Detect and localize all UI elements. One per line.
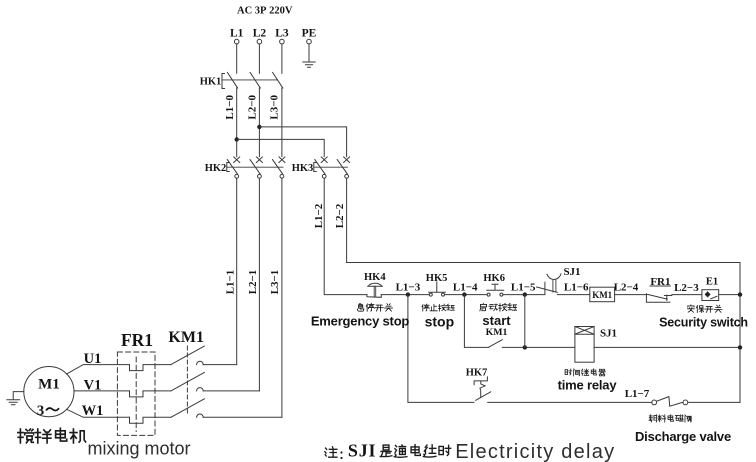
discharge valve contact bbox=[652, 400, 657, 405]
switch HK7 bbox=[474, 377, 487, 385]
wire bbox=[281, 44, 283, 73]
motor M1 bbox=[24, 367, 74, 417]
thermal relay FR1 heater bbox=[130, 365, 171, 371]
wire bbox=[688, 401, 740, 403]
wire L1-2 bbox=[324, 178, 367, 294]
svg-text:W1: W1 bbox=[82, 403, 104, 419]
svg-text:SJ1: SJ1 bbox=[563, 266, 580, 278]
hanzi 急停开关 emergency stop label bbox=[357, 303, 363, 311]
svg-text:KM1: KM1 bbox=[486, 327, 508, 338]
switch HK1 linkage bbox=[222, 79, 278, 81]
svg-text:L1−3: L1−3 bbox=[396, 282, 421, 294]
switch HK2 pole bbox=[256, 157, 262, 163]
svg-text:Emergency stop: Emergency stop bbox=[311, 313, 410, 328]
junction node bbox=[738, 292, 742, 296]
switch HK3 pole bbox=[344, 157, 350, 163]
svg-text:HK1: HK1 bbox=[200, 76, 222, 87]
contactor KM1 linkage bbox=[186, 346, 188, 413]
contactor KM1 main contact bbox=[171, 399, 205, 418]
svg-text:L3−1: L3−1 bbox=[269, 270, 281, 295]
wire bbox=[557, 294, 589, 296]
hanzi 停止按钮 stop button label bbox=[422, 304, 429, 311]
wire bbox=[615, 294, 647, 296]
svg-text:L3: L3 bbox=[275, 28, 289, 40]
hanzi 注 note label bbox=[325, 447, 338, 457]
wire V1 bbox=[74, 390, 130, 392]
wire L3-1 bbox=[281, 178, 283, 417]
svg-text:FR1: FR1 bbox=[650, 276, 670, 288]
wire bbox=[445, 294, 488, 296]
switch HK2 pole bbox=[279, 157, 285, 163]
wire bbox=[258, 44, 260, 73]
contactor KM1 main contact bbox=[171, 372, 205, 391]
svg-text:HK2: HK2 bbox=[205, 163, 227, 174]
wire bbox=[381, 294, 429, 296]
wire L2-1 bbox=[258, 178, 260, 391]
svg-text:L2−0: L2−0 bbox=[247, 94, 259, 119]
wire bbox=[258, 88, 260, 157]
switch HK1 blade bbox=[227, 72, 237, 88]
svg-text:3: 3 bbox=[37, 403, 45, 419]
wire top rail bbox=[347, 262, 740, 264]
time relay contact SJ1 bbox=[544, 282, 546, 294]
svg-text:L1−6: L1−6 bbox=[564, 281, 589, 293]
svg-text:SJI: SJI bbox=[348, 441, 376, 461]
wire W1 bbox=[67, 409, 130, 417]
svg-text:Discharge valve: Discharge valve bbox=[635, 429, 731, 444]
svg-text:L2−2: L2−2 bbox=[334, 203, 346, 228]
thermal relay FR1 heater bbox=[130, 417, 171, 423]
svg-text:L1−7: L1−7 bbox=[625, 388, 650, 400]
svg-text:HK5: HK5 bbox=[426, 273, 448, 284]
junction node bbox=[523, 345, 527, 349]
hanzi 是通电延时 electricity delay note bbox=[380, 445, 392, 456]
svg-text:KM1: KM1 bbox=[592, 290, 612, 300]
stop button HK5 bbox=[429, 293, 432, 296]
svg-text:FR1: FR1 bbox=[121, 330, 153, 350]
junction node bbox=[235, 137, 239, 141]
thermal relay FR1 box bbox=[117, 352, 155, 435]
svg-text:mixing motor: mixing motor bbox=[88, 439, 191, 459]
wire bbox=[524, 295, 526, 348]
switch HK1 blade bbox=[250, 72, 260, 88]
wire U1 bbox=[67, 365, 130, 374]
contactor KM1 contact arc bbox=[197, 361, 204, 364]
wire bbox=[503, 294, 545, 296]
contactor KM1 contact arc bbox=[197, 388, 204, 391]
thermal relay FR1 link bbox=[135, 357, 137, 432]
wire L1-1 bbox=[236, 178, 238, 364]
svg-text:SJ1: SJ1 bbox=[600, 328, 617, 340]
svg-text:U1: U1 bbox=[84, 351, 102, 367]
start button HK6 bbox=[487, 293, 490, 296]
emergency stop HK4 bbox=[367, 295, 381, 298]
wire bbox=[203, 364, 237, 366]
label tilde bbox=[47, 408, 59, 410]
svg-text:L1−5: L1−5 bbox=[511, 282, 536, 294]
wire bbox=[203, 416, 282, 418]
svg-text:AC 3P 220V: AC 3P 220V bbox=[237, 6, 293, 17]
ground motor bbox=[7, 392, 24, 405]
svg-text:stop: stop bbox=[425, 314, 455, 330]
svg-text:L1−1: L1−1 bbox=[225, 270, 237, 295]
terminal PE bbox=[307, 39, 312, 44]
svg-text:V1: V1 bbox=[84, 377, 102, 393]
hanzi 时间继电器 time relay label bbox=[565, 369, 572, 375]
switch HK2 linkage bbox=[227, 166, 283, 168]
emergency stop HK4 cap bbox=[368, 283, 383, 286]
svg-text:Security switch: Security switch bbox=[659, 316, 748, 330]
hanzi 启动按钮 start button label bbox=[480, 303, 487, 311]
wire bbox=[236, 44, 238, 73]
terminal L3 bbox=[280, 39, 285, 44]
svg-text:L1: L1 bbox=[230, 28, 244, 40]
wire bbox=[672, 294, 702, 296]
svg-text:HK6: HK6 bbox=[483, 273, 505, 284]
wire bbox=[464, 295, 488, 348]
svg-text:M1: M1 bbox=[38, 377, 60, 393]
ground PE bbox=[303, 62, 315, 67]
switch HK1 blade bbox=[273, 72, 283, 88]
terminal L2 bbox=[257, 39, 262, 44]
contactor KM1 aux contact bbox=[488, 340, 502, 348]
wire bbox=[594, 346, 740, 348]
svg-text:L1−2: L1−2 bbox=[313, 203, 325, 228]
svg-text:HK7: HK7 bbox=[466, 368, 488, 379]
svg-text:L1−4: L1−4 bbox=[453, 282, 478, 294]
contactor KM1 main contact bbox=[171, 346, 205, 365]
svg-text:PE: PE bbox=[302, 28, 317, 40]
switch HK3 pole bbox=[321, 157, 327, 163]
svg-text:L2: L2 bbox=[253, 28, 267, 40]
emergency stop HK4 stem bbox=[374, 286, 376, 296]
wire bbox=[719, 294, 740, 296]
svg-text:L1−0: L1−0 bbox=[224, 94, 236, 119]
switch HK3 bracket bbox=[314, 163, 316, 172]
hanzi 卸料电磁阀 discharge valve label bbox=[649, 415, 657, 422]
svg-text:KM1: KM1 bbox=[168, 329, 204, 346]
junction node L1-4 bbox=[462, 292, 466, 296]
svg-text:L3−0: L3−0 bbox=[269, 94, 281, 119]
switch HK3 linkage bbox=[314, 166, 348, 168]
junction node bbox=[738, 345, 742, 349]
svg-text:time relay: time relay bbox=[558, 378, 618, 393]
junction node L1-5 bbox=[523, 292, 527, 296]
junction node bbox=[257, 125, 261, 129]
time relay coil SJ1 bbox=[575, 327, 594, 363]
terminal L1 bbox=[234, 39, 239, 44]
contactor coil KM1 bbox=[590, 287, 615, 302]
wire bbox=[236, 88, 238, 157]
wire bbox=[203, 390, 259, 392]
svg-text:start: start bbox=[482, 313, 511, 328]
switch HK2 pole bbox=[234, 157, 240, 163]
hanzi 安保开关 security switch label bbox=[688, 305, 695, 312]
svg-text:E1: E1 bbox=[706, 277, 718, 288]
wire PE bbox=[308, 44, 310, 62]
wire bbox=[488, 401, 652, 403]
wire L2-2 bbox=[346, 178, 348, 262]
svg-text:L2−1: L2−1 bbox=[247, 270, 259, 295]
junction node L1-3 bbox=[406, 292, 410, 296]
svg-text:Electricity delay: Electricity delay bbox=[455, 441, 615, 462]
svg-text:L2−3: L2−3 bbox=[674, 282, 699, 294]
wire bbox=[237, 139, 325, 156]
thermal contact FR1 bbox=[646, 286, 671, 302]
contactor KM1 contact arc bbox=[197, 414, 204, 417]
svg-text:HK3: HK3 bbox=[292, 163, 314, 174]
hanzi 搅拌电机 mixing motor label bbox=[18, 429, 34, 443]
security switch E1 bbox=[702, 290, 719, 301]
thermal relay FR1 heater bbox=[130, 391, 171, 397]
wire bbox=[259, 127, 346, 157]
wire bbox=[502, 346, 575, 348]
switch HK1 bracket bbox=[222, 74, 225, 89]
switch HK2 bracket bbox=[227, 163, 229, 172]
svg-text:L2−4: L2−4 bbox=[614, 282, 639, 294]
wire right rail bbox=[739, 263, 741, 403]
svg-text:HK4: HK4 bbox=[364, 272, 386, 283]
wire bbox=[281, 88, 283, 157]
wire bbox=[408, 295, 474, 403]
